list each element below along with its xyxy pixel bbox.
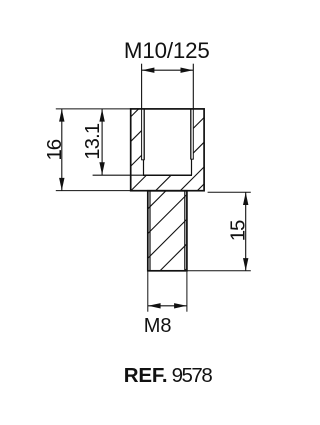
thread runout jog left — [141, 159, 144, 161]
dimension M8 extension line right — [186, 272, 188, 312]
dimension M10 arrow left — [142, 68, 155, 73]
internal thread major-diameter line right (thin) — [192, 109, 194, 159]
svg-text:16: 16 — [43, 139, 66, 160]
dimension 15 arrow up — [243, 193, 248, 206]
dimension 15 top extension line — [208, 191, 251, 193]
internal thread minor/bore line left — [143, 109, 145, 159]
dimension 16 bottom extension line — [56, 190, 131, 192]
drilled hole continuation line right — [191, 159, 193, 175]
dimension 13.1 arrow up — [99, 109, 104, 122]
dimension 15 bottom extension line — [187, 270, 251, 272]
dimension 13.1 dimension line — [101, 109, 103, 175]
dimension 16 arrow down — [59, 178, 64, 191]
dimension M10 arrow right — [181, 68, 194, 73]
drilled hole continuation line left — [143, 160, 145, 175]
dimension 13.1 arrow down — [99, 162, 104, 175]
svg-text:M8: M8 — [144, 315, 172, 337]
dimension M8 extension line left — [147, 272, 149, 312]
dimension M10 extension line right — [192, 64, 194, 109]
dimension M8 dimension line — [148, 305, 187, 307]
external thread minor line right (thin) — [184, 191, 186, 271]
internal thread minor/bore line right — [190, 109, 192, 159]
svg-text:REF. 9578: REF. 9578 — [124, 364, 213, 387]
dimension 15 arrow down — [243, 258, 248, 271]
svg-text:M10/125: M10/125 — [124, 38, 210, 63]
svg-text:15: 15 — [226, 220, 249, 241]
dimension 13.1 bottom extension line — [93, 174, 144, 176]
svg-text:13.1: 13.1 — [82, 123, 104, 160]
dimension 16/13.1 top extension line — [56, 108, 131, 110]
dimension M10 dimension line — [142, 69, 194, 71]
part outline: threaded stem (section) — [148, 191, 187, 271]
internal thread major-diameter line left (thin) — [141, 109, 143, 159]
part outline: upper body (section) — [131, 109, 204, 191]
dimension 15 dimension line — [245, 192, 247, 270]
thread runout jog right — [190, 158, 193, 160]
dimension 16 dimension line — [61, 109, 63, 191]
dimension 16 arrow up — [59, 109, 64, 122]
dimension M8 arrow right — [174, 303, 187, 308]
external thread minor line left (thin) — [149, 191, 151, 271]
dimension M8 arrow left — [148, 303, 161, 308]
dimension M10 extension line left — [141, 64, 143, 109]
bore bottom line — [143, 174, 192, 176]
